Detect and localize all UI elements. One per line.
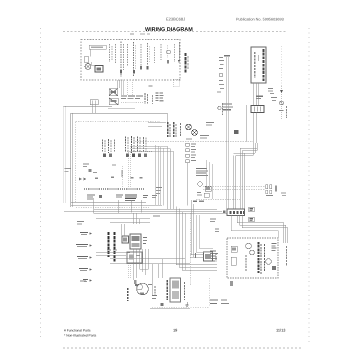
wire — [160, 147, 162, 205]
wire — [96, 252, 130, 254]
wire label columns — [144, 93, 146, 104]
wire bus — [64, 210, 222, 212]
svg-text:# Functional Parts: # Functional Parts — [64, 329, 91, 333]
interior small labels — [83, 164, 89, 165]
wire — [141, 200, 143, 213]
wire — [178, 209, 180, 267]
connector P1 label — [223, 211, 226, 214]
connector J3 label block — [222, 104, 232, 105]
wire — [228, 57, 230, 209]
wire — [226, 57, 228, 209]
page border right dotted — [308, 28, 310, 345]
fresh food bottom wall — [71, 201, 146, 203]
wire — [167, 113, 169, 122]
svg-text:E23BC68J: E23BC68J — [166, 17, 185, 22]
freezer lamp housing box — [89, 45, 106, 49]
wire — [148, 122, 166, 124]
wire dashed — [189, 213, 191, 285]
freezer light switch box — [95, 66, 103, 73]
timer marks — [152, 295, 157, 296]
wire — [181, 212, 183, 270]
wire — [93, 200, 95, 213]
wire — [121, 224, 123, 236]
misc marks — [80, 281, 86, 282]
wire — [131, 200, 133, 213]
damper internal marks — [254, 52, 256, 78]
cut wire stubs — [76, 232, 92, 282]
wire — [243, 153, 245, 209]
wire joint marks — [224, 55, 230, 56]
wire — [130, 152, 132, 188]
page border left dotted — [40, 28, 42, 341]
wire — [150, 307, 190, 309]
water tube heater — [204, 252, 213, 261]
wire — [253, 83, 255, 106]
dispenser left labels — [210, 251, 218, 262]
wire — [157, 264, 159, 279]
wire — [127, 151, 152, 153]
connector J2 — [251, 106, 264, 113]
wire — [108, 108, 135, 110]
freezer liner label — [184, 53, 186, 73]
wire with arrow — [178, 42, 180, 60]
wire bend — [237, 222, 284, 224]
svg-text:19: 19 — [173, 328, 177, 333]
air damper control label — [263, 49, 265, 81]
terminal strip — [84, 188, 144, 190]
thermistor label — [286, 106, 288, 118]
wire — [110, 222, 150, 224]
wire — [166, 146, 168, 209]
wire — [212, 164, 214, 199]
wire — [63, 107, 65, 204]
wire dashed — [122, 166, 124, 188]
wire — [169, 149, 171, 210]
wire — [117, 80, 119, 88]
fresh food interior label columns — [103, 136, 148, 157]
marks above — [193, 201, 197, 202]
ground symbol — [186, 302, 189, 306]
wire — [64, 105, 113, 107]
wire — [184, 213, 186, 270]
wire — [90, 49, 92, 56]
freezer light bulb E1 — [85, 64, 91, 70]
micro switch S2 — [249, 217, 255, 222]
wire — [151, 264, 153, 296]
wire — [172, 151, 174, 209]
evaporator thermistor chain — [279, 86, 284, 120]
freezer door switch box — [84, 57, 89, 63]
page border bottom dashed — [63, 347, 301, 349]
tick marks under border — [130, 34, 134, 35]
wire — [121, 80, 123, 95]
stub note — [77, 221, 84, 222]
main harness connector P1 — [227, 209, 245, 216]
wire — [136, 213, 138, 224]
wire — [96, 218, 150, 220]
wire run labels — [156, 187, 162, 188]
wire bend — [240, 147, 257, 149]
wire — [157, 146, 159, 205]
door hinge connector block A — [109, 89, 118, 96]
wire — [76, 207, 150, 209]
wire — [162, 148, 164, 205]
wire tick — [195, 253, 196, 258]
wire — [133, 249, 135, 280]
relay cluster — [122, 234, 147, 249]
wire — [191, 200, 193, 255]
wire bend — [240, 224, 286, 226]
connector stack labels — [191, 144, 196, 162]
wire — [128, 265, 130, 278]
fresh food top wall — [71, 112, 168, 114]
wire — [110, 258, 185, 260]
fresh food left wall — [70, 113, 72, 207]
wire — [190, 254, 204, 256]
svg-text:Publication No. 5995603693: Publication No. 5995603693 — [236, 18, 284, 22]
wire dashed run — [135, 141, 253, 143]
air damper control box — [251, 47, 266, 83]
defrost labels — [166, 280, 168, 300]
overload labels — [148, 284, 152, 285]
water valve cluster — [197, 182, 211, 197]
dispenser below notes — [230, 281, 233, 286]
wire labels small — [153, 216, 160, 217]
wire — [205, 160, 207, 186]
wire bend — [242, 227, 288, 229]
condenser fan motor M2 — [192, 130, 198, 136]
svg-text:11/13: 11/13 — [276, 328, 285, 333]
defrost heater box — [170, 278, 181, 302]
hinge label row — [121, 95, 143, 102]
wire — [175, 206, 177, 264]
wire dashed — [203, 188, 265, 190]
wire — [253, 113, 255, 144]
wire — [258, 83, 260, 106]
cond fan note — [107, 250, 111, 251]
compressor motor — [135, 283, 148, 295]
freezer harness wire label columns — [110, 42, 175, 78]
dispenser control enclosure — [227, 238, 278, 278]
wire — [140, 268, 149, 270]
connector pins — [79, 178, 82, 181]
wire bus — [94, 212, 228, 214]
dashed enclosure — [209, 278, 211, 307]
wire — [245, 105, 247, 142]
wire — [187, 163, 189, 205]
wire dotted — [281, 46, 283, 86]
connector dashed box — [173, 79, 180, 87]
wire — [239, 148, 241, 209]
door hinge connector block B — [109, 98, 118, 105]
wire dashed — [196, 199, 240, 201]
fan wire labels — [200, 135, 209, 136]
compressor label — [127, 288, 129, 301]
page border top dashed — [63, 31, 287, 33]
terminal pin labels — [87, 195, 157, 202]
fresh food inner dashed wall — [75, 122, 77, 202]
run capacitor label — [108, 232, 110, 257]
wire — [139, 249, 141, 269]
wire — [155, 145, 157, 205]
wire bus — [94, 208, 218, 210]
wire bend — [130, 145, 167, 147]
wire — [65, 107, 67, 204]
evaporator fan motor M1 — [186, 124, 192, 130]
freezer compartment enclosure — [81, 40, 180, 81]
start device label — [114, 232, 116, 262]
wire — [254, 143, 256, 153]
wire clip marks — [268, 88, 273, 89]
connector M label — [234, 130, 239, 134]
wire — [255, 83, 257, 106]
wire bend — [231, 230, 278, 232]
wire — [208, 162, 210, 186]
wire — [195, 215, 197, 252]
wire — [128, 152, 130, 188]
wire dashed — [203, 186, 265, 188]
freezer sensor stack — [219, 57, 224, 89]
wire — [91, 62, 93, 66]
micro switch S1 — [249, 207, 255, 212]
fan top labels — [206, 122, 214, 123]
wire — [133, 213, 135, 224]
start relay box — [127, 252, 142, 263]
icemaker plug symbols — [266, 185, 287, 197]
wire — [110, 263, 190, 265]
wire color label cluster — [149, 86, 164, 102]
svg-text:* Non-Illustrated Parts: * Non-Illustrated Parts — [64, 334, 97, 338]
wire — [118, 200, 120, 213]
wire — [199, 215, 201, 249]
connector J2 label — [256, 96, 263, 97]
small connector box — [90, 100, 98, 105]
wire — [127, 80, 129, 95]
dispenser note text — [196, 168, 208, 176]
wire — [233, 156, 235, 210]
sensor marks — [218, 106, 221, 109]
wire — [235, 156, 237, 210]
wire — [193, 204, 195, 257]
connector stack — [186, 143, 190, 163]
evaporator fan label block — [168, 122, 181, 138]
wire — [241, 151, 243, 210]
dispenser inner components — [231, 242, 277, 274]
wire — [255, 113, 257, 144]
wire — [139, 219, 141, 225]
dispenser harness label — [286, 246, 288, 266]
